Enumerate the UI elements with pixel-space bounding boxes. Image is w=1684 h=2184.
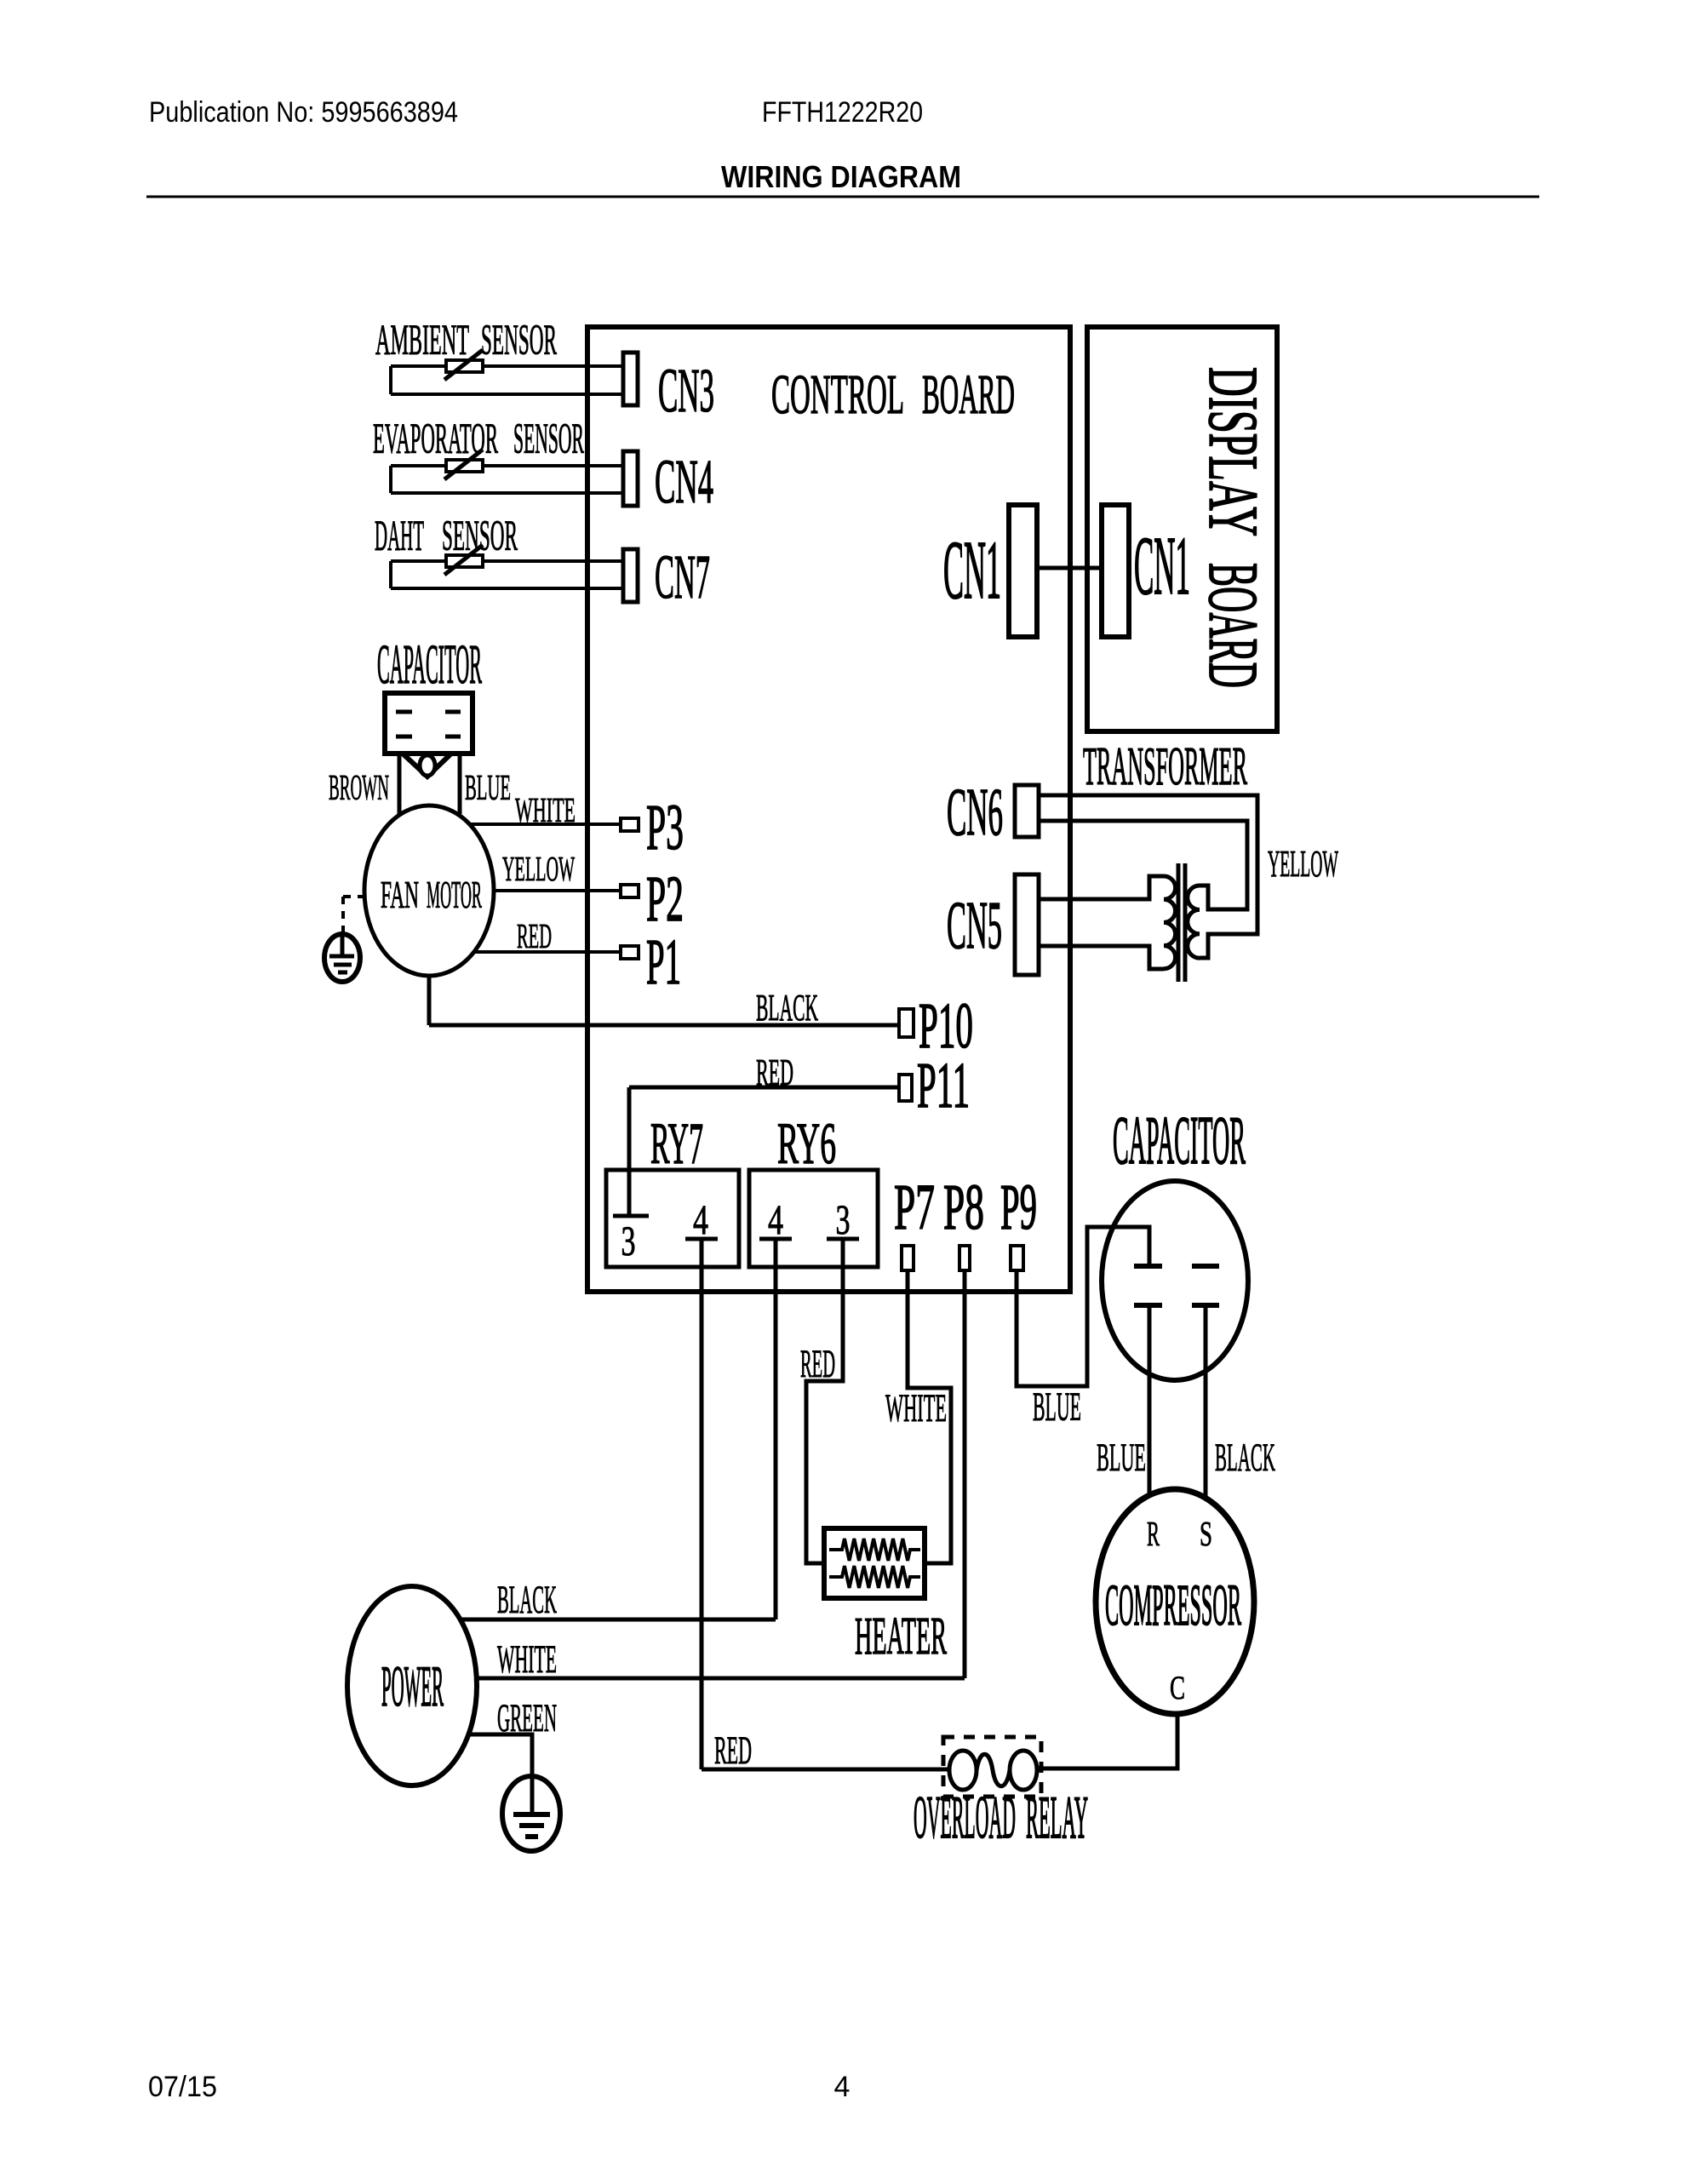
svg-text:RED: RED	[714, 1728, 752, 1773]
svg-text:DISPLAY: DISPLAY	[1194, 367, 1273, 536]
svg-text:3: 3	[621, 1217, 636, 1264]
svg-text:4: 4	[693, 1195, 708, 1243]
svg-text:YELLOW: YELLOW	[1268, 843, 1338, 885]
svg-text:CN3: CN3	[658, 356, 714, 425]
svg-text:CN7: CN7	[655, 542, 710, 611]
svg-text:BLACK: BLACK	[497, 1578, 557, 1622]
svg-text:BLUE: BLUE	[1033, 1384, 1081, 1430]
svg-text:BOARD: BOARD	[922, 364, 1015, 426]
svg-text:4: 4	[768, 1195, 783, 1243]
svg-text:P11: P11	[917, 1050, 970, 1121]
svg-text:DAHT: DAHT	[375, 513, 424, 560]
svg-text:P2: P2	[646, 863, 684, 935]
svg-text:WHITE: WHITE	[497, 1637, 557, 1682]
svg-text:RY7: RY7	[650, 1111, 703, 1176]
svg-text:WIRING DIAGRAM: WIRING DIAGRAM	[721, 159, 961, 194]
svg-text:P1: P1	[646, 926, 681, 998]
svg-text:SENSOR: SENSOR	[481, 317, 557, 364]
svg-text:CN5: CN5	[947, 889, 1002, 963]
svg-text:P8: P8	[943, 1172, 984, 1243]
svg-text:OVERLOAD: OVERLOAD	[914, 1785, 1016, 1851]
svg-text:RELAY: RELAY	[1026, 1785, 1088, 1851]
svg-text:BLUE: BLUE	[465, 769, 511, 808]
svg-text:BROWN: BROWN	[329, 769, 389, 808]
svg-text:07/15: 07/15	[148, 2071, 217, 2103]
svg-text:FFTH1222R20: FFTH1222R20	[762, 96, 923, 129]
svg-text:S: S	[1200, 1514, 1212, 1553]
svg-text:CAPACITOR: CAPACITOR	[1113, 1103, 1246, 1178]
svg-text:BOARD: BOARD	[1194, 563, 1273, 688]
svg-text:RY6: RY6	[777, 1111, 836, 1176]
svg-text:RED: RED	[800, 1342, 835, 1386]
svg-text:3: 3	[836, 1195, 851, 1243]
svg-text:SENSOR: SENSOR	[513, 416, 584, 463]
svg-text:BLACK: BLACK	[756, 987, 818, 1029]
svg-text:YELLOW: YELLOW	[502, 849, 575, 888]
svg-text:SENSOR: SENSOR	[442, 513, 518, 560]
svg-text:FAN: FAN	[381, 874, 419, 916]
svg-text:AMBIENT: AMBIENT	[375, 317, 469, 364]
svg-text:TRANSFORMER: TRANSFORMER	[1083, 737, 1247, 796]
svg-text:HEATER: HEATER	[855, 1608, 947, 1665]
svg-text:RED: RED	[517, 916, 552, 955]
svg-text:CAPACITOR: CAPACITOR	[377, 633, 482, 696]
svg-text:CN1: CN1	[943, 525, 1001, 616]
svg-text:P3: P3	[646, 792, 684, 863]
svg-text:POWER: POWER	[381, 1654, 444, 1718]
svg-text:EVAPORATOR: EVAPORATOR	[373, 416, 498, 463]
svg-text:CN1: CN1	[1134, 520, 1190, 611]
svg-text:4: 4	[834, 2071, 851, 2103]
svg-text:BLUE: BLUE	[1097, 1436, 1146, 1480]
svg-text:P9: P9	[1000, 1172, 1037, 1243]
svg-text:BLACK: BLACK	[1215, 1436, 1275, 1480]
svg-text:Publication No: 5995663894: Publication No: 5995663894	[149, 96, 458, 129]
svg-text:CN6: CN6	[947, 776, 1003, 850]
svg-text:CONTROL: CONTROL	[771, 364, 904, 426]
svg-text:WHITE: WHITE	[885, 1386, 947, 1430]
svg-text:COMPRESSOR: COMPRESSOR	[1105, 1573, 1241, 1637]
svg-text:MOTOR: MOTOR	[427, 874, 482, 916]
svg-text:C: C	[1170, 1670, 1185, 1706]
svg-text:R: R	[1147, 1514, 1160, 1553]
svg-text:CN4: CN4	[655, 447, 713, 516]
svg-text:P7: P7	[894, 1172, 935, 1243]
